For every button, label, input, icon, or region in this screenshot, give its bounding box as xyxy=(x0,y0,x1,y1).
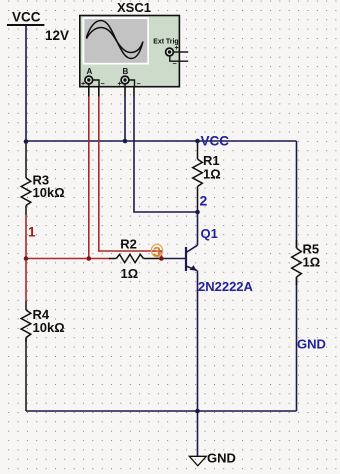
transistor Q1 2N2222A xyxy=(186,245,198,271)
label Q1 xyxy=(201,226,218,241)
label R2 xyxy=(120,236,137,251)
oscilloscope XSC1 xyxy=(80,16,180,87)
wire scope A+ down to node 1 row (red) xyxy=(88,84,90,259)
wire scope B- down and right to node 2 xyxy=(134,84,198,212)
terminal Ext Trig of oscilloscope xyxy=(166,48,189,61)
terminal B of oscilloscope xyxy=(121,76,134,87)
junction node 1 left xyxy=(24,256,29,261)
wire red node 1 row horizontal xyxy=(26,258,110,260)
svg-text:−: − xyxy=(173,61,177,68)
minus sign of B xyxy=(137,81,141,88)
wire R3 bottom to node 1 (red) xyxy=(25,215,27,259)
svg-text:A: A xyxy=(87,67,93,76)
resistor R1 xyxy=(193,143,203,210)
net label GND right xyxy=(297,337,326,352)
svg-text:Q1: Q1 xyxy=(201,226,218,241)
wire R5 bottom to bottom rail xyxy=(296,277,298,411)
svg-text:2N2222A: 2N2222A xyxy=(198,279,254,294)
wire R2 right lead to node 3 xyxy=(144,258,162,260)
plus sign of B xyxy=(118,81,122,88)
minus sign of A xyxy=(101,81,105,88)
svg-text:1Ω: 1Ω xyxy=(303,255,321,270)
value 1 ohm R5 xyxy=(303,255,321,270)
wire emitter down to bottom rail xyxy=(197,271,199,411)
svg-text:2: 2 xyxy=(200,192,208,208)
junction node 2 collector xyxy=(195,210,200,215)
svg-text:−: − xyxy=(137,81,141,88)
label XSC1 xyxy=(117,0,151,15)
wire bottom GND rail xyxy=(26,410,297,412)
net number 1 (red) xyxy=(28,225,36,240)
wire R4 bottom to bottom rail xyxy=(25,338,27,411)
svg-text:−: − xyxy=(101,81,105,88)
svg-text:+: + xyxy=(118,81,122,88)
label R1 xyxy=(203,153,220,168)
wire right rail down to R5 xyxy=(296,141,298,248)
pin label A xyxy=(87,67,93,76)
wire VCC rail horizontal xyxy=(26,140,297,142)
svg-text:VCC: VCC xyxy=(12,10,41,25)
label R4 xyxy=(33,307,50,322)
svg-text:B: B xyxy=(123,67,129,76)
value 1 ohm R1 xyxy=(203,166,221,181)
wire node 1 down to R4 (red) xyxy=(25,259,27,302)
net label 2 xyxy=(200,192,208,208)
wire scope B+ to VCC rail xyxy=(124,84,126,141)
label R3 xyxy=(33,172,50,187)
resistor R2 (horizontal) xyxy=(109,254,144,262)
pin label Ext Trig xyxy=(153,38,178,45)
junction node 3 at base xyxy=(159,256,164,261)
svg-text:10kΩ: 10kΩ xyxy=(33,320,65,335)
wire bottom rail to ground symbol xyxy=(197,411,199,457)
svg-text:12V: 12V xyxy=(45,28,69,43)
svg-text:10kΩ: 10kΩ xyxy=(33,185,65,200)
net number 3 (orange, circled) xyxy=(151,243,162,259)
power symbol VCC 12V xyxy=(7,10,69,43)
net label VCC xyxy=(201,134,230,149)
wire scope A- down right and to node 3 (red) xyxy=(99,84,162,259)
junction A+ on node 1 row xyxy=(87,256,92,261)
label R5 xyxy=(303,242,320,257)
label GND at ground symbol xyxy=(207,451,236,466)
wire collector node 2 down to Q1 xyxy=(197,212,199,245)
svg-text:GND: GND xyxy=(207,451,236,466)
junction at VCC left column and rail xyxy=(24,139,29,144)
svg-text:XSC1: XSC1 xyxy=(117,0,151,15)
junction emitter on bottom rail xyxy=(195,409,200,414)
svg-text:GND: GND xyxy=(297,337,326,352)
svg-text:3: 3 xyxy=(153,243,161,259)
svg-text:+: + xyxy=(81,81,85,88)
value 2N2222A xyxy=(198,279,254,294)
svg-text:+: + xyxy=(175,45,179,52)
junction B+ on VCC rail xyxy=(123,139,128,144)
svg-text:1Ω: 1Ω xyxy=(121,266,139,281)
svg-text:1: 1 xyxy=(28,225,36,240)
wire VCC symbol to node at rail (net VCC, left column) xyxy=(25,26,27,142)
plus sign of A xyxy=(81,81,85,88)
svg-text:VCC: VCC xyxy=(201,134,230,149)
ground symbol xyxy=(189,456,206,466)
terminal A of oscilloscope xyxy=(85,76,99,87)
wire node 3 to Q1 base xyxy=(161,258,186,260)
value 10k ohm R4 xyxy=(33,320,65,335)
pin label B xyxy=(123,67,129,76)
svg-text:1Ω: 1Ω xyxy=(203,166,221,181)
value 10k ohm R3 xyxy=(33,185,65,200)
resistor R4 xyxy=(21,301,31,342)
resistor R3 xyxy=(21,142,31,215)
resistor R5 xyxy=(292,240,302,285)
plus sign of Ext Trig xyxy=(175,45,179,52)
value 1 ohm R2 xyxy=(121,266,139,281)
svg-text:R2: R2 xyxy=(120,236,137,251)
junction R1 top on VCC rail xyxy=(195,139,200,144)
minus sign of Ext Trig xyxy=(173,61,177,68)
